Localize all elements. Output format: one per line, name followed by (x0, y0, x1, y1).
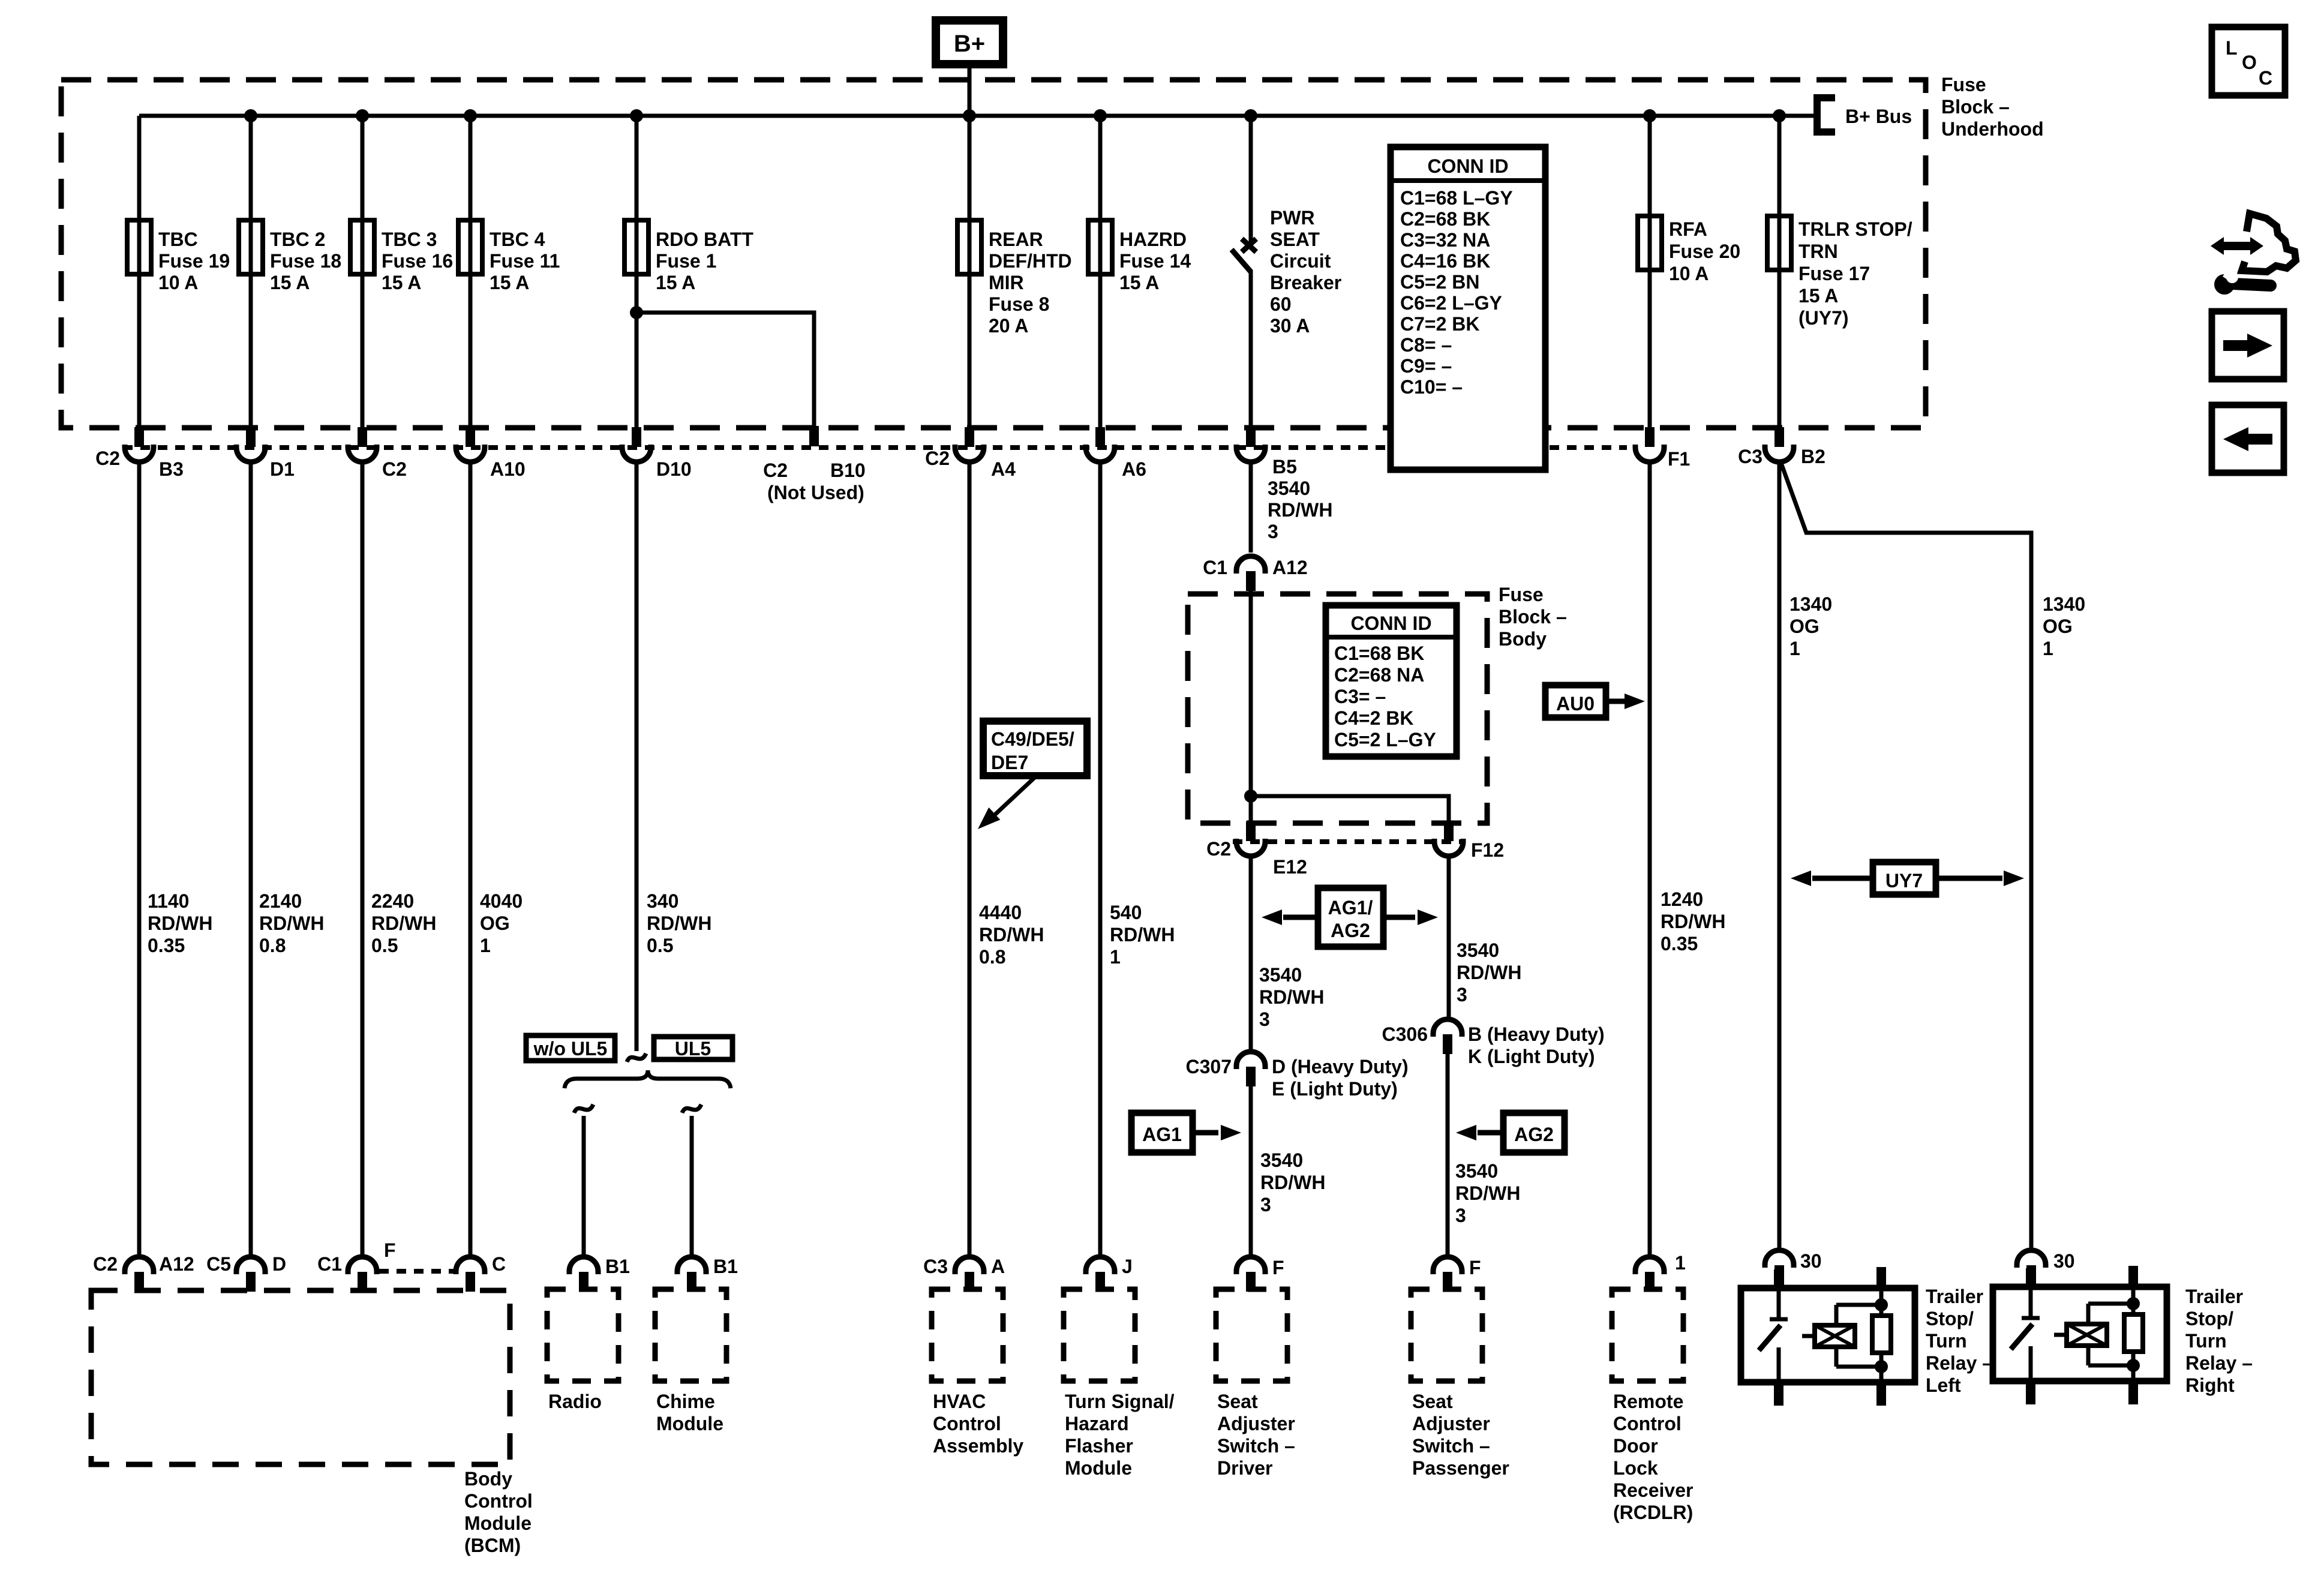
svg-text:w/o UL5: w/o UL5 (533, 1038, 608, 1059)
svg-text:15 A: 15 A (270, 272, 310, 293)
svg-text:RD/WH: RD/WH (1110, 924, 1175, 945)
svg-text:Module: Module (464, 1512, 532, 1534)
svg-text:3: 3 (1457, 984, 1467, 1005)
svg-text:Stop/: Stop/ (1926, 1308, 1974, 1329)
svg-text:Trailer: Trailer (2185, 1286, 2243, 1307)
svg-text:1: 1 (480, 935, 491, 956)
svg-text:UY7: UY7 (1885, 870, 1923, 891)
svg-text:C: C (2259, 67, 2272, 89)
svg-text:C2: C2 (925, 448, 950, 469)
svg-text:15 A: 15 A (1798, 285, 1838, 307)
svg-text:E (Light Duty): E (Light Duty) (1272, 1078, 1398, 1100)
svg-text:SEAT: SEAT (1270, 229, 1320, 250)
svg-text:AU0: AU0 (1556, 693, 1595, 715)
svg-text:B+ Bus: B+ Bus (1845, 106, 1912, 127)
svg-text:C2=68 BK: C2=68 BK (1400, 208, 1490, 230)
svg-text:Fuse: Fuse (1941, 74, 1986, 95)
svg-text:D10: D10 (656, 458, 692, 480)
svg-text:TBC 4: TBC 4 (490, 229, 545, 250)
svg-text:TRN: TRN (1798, 241, 1838, 262)
svg-text:1340: 1340 (2043, 593, 2085, 615)
svg-text:B (Heavy Duty): B (Heavy Duty) (1468, 1023, 1605, 1045)
svg-text:C1: C1 (317, 1253, 342, 1275)
svg-text:Turn Signal/: Turn Signal/ (1065, 1391, 1175, 1412)
svg-text:Fuse 14: Fuse 14 (1119, 250, 1191, 272)
svg-text:UL5: UL5 (675, 1038, 711, 1059)
svg-text:Fuse 11: Fuse 11 (490, 250, 560, 272)
svg-text:C3: C3 (1738, 446, 1762, 467)
svg-text:J: J (1122, 1256, 1133, 1277)
svg-text:L: L (2226, 37, 2238, 59)
svg-text:C49/DE5/: C49/DE5/ (991, 728, 1074, 750)
svg-text:C5=2 BN: C5=2 BN (1400, 271, 1480, 293)
svg-text:C: C (492, 1253, 506, 1275)
svg-text:2240: 2240 (371, 890, 414, 912)
svg-text:Receiver: Receiver (1613, 1479, 1693, 1501)
svg-text:0.35: 0.35 (148, 935, 185, 956)
svg-text:CONN ID: CONN ID (1427, 155, 1508, 177)
svg-text:0.5: 0.5 (371, 935, 398, 956)
svg-text:DE7: DE7 (991, 752, 1028, 773)
svg-text:Passenger: Passenger (1412, 1457, 1509, 1479)
svg-text:C2: C2 (382, 458, 407, 480)
svg-text:(Not Used): (Not Used) (767, 482, 864, 503)
svg-text:1: 1 (1110, 946, 1121, 968)
svg-text:Switch –: Switch – (1217, 1435, 1295, 1457)
svg-text:RFA: RFA (1669, 218, 1707, 240)
svg-text:C307: C307 (1186, 1056, 1232, 1077)
svg-text:C2: C2 (95, 448, 120, 469)
svg-text:15 A: 15 A (1119, 272, 1159, 293)
svg-text:Driver: Driver (1217, 1457, 1273, 1479)
svg-text:TBC 3: TBC 3 (382, 229, 437, 250)
svg-text:B2: B2 (1801, 446, 1825, 467)
svg-text:RD/WH: RD/WH (1260, 1172, 1325, 1193)
svg-text:C8= –: C8= – (1400, 334, 1452, 356)
svg-text:F: F (1272, 1257, 1284, 1278)
svg-text:Body: Body (1499, 628, 1547, 650)
svg-text:1140: 1140 (148, 890, 189, 912)
svg-text:30: 30 (1800, 1250, 1822, 1272)
svg-text:C1=68 L–GY: C1=68 L–GY (1400, 187, 1513, 209)
svg-text:K (Light Duty): K (Light Duty) (1468, 1046, 1595, 1067)
svg-text:Radio: Radio (548, 1391, 602, 1412)
svg-text:F: F (1469, 1257, 1481, 1278)
svg-text:Adjuster: Adjuster (1412, 1413, 1490, 1434)
svg-text:B1: B1 (605, 1256, 630, 1277)
svg-text:A12: A12 (1272, 557, 1308, 578)
svg-text:3540: 3540 (1455, 1160, 1498, 1182)
svg-text:Breaker: Breaker (1270, 272, 1341, 293)
svg-text:D: D (272, 1253, 286, 1275)
svg-text:F: F (384, 1239, 396, 1261)
svg-text:15 A: 15 A (382, 272, 421, 293)
svg-text:OG: OG (480, 912, 510, 934)
svg-text:540: 540 (1110, 902, 1142, 923)
svg-text:1: 1 (1789, 638, 1800, 659)
svg-text:MIR: MIR (989, 272, 1024, 293)
svg-text:C4=16 BK: C4=16 BK (1400, 250, 1490, 272)
svg-text:AG1: AG1 (1142, 1124, 1182, 1145)
svg-text:3: 3 (1259, 1008, 1270, 1030)
svg-text:F1: F1 (1668, 448, 1690, 470)
svg-text:C3: C3 (923, 1256, 948, 1277)
svg-text:Seat: Seat (1412, 1391, 1453, 1412)
svg-text:Circuit: Circuit (1270, 250, 1331, 272)
svg-text:C6=2 L–GY: C6=2 L–GY (1400, 292, 1502, 314)
svg-text:2140: 2140 (259, 890, 302, 912)
svg-text:Hazard: Hazard (1065, 1413, 1129, 1434)
svg-text:0.8: 0.8 (979, 946, 1005, 968)
svg-text:F12: F12 (1471, 839, 1504, 861)
svg-text:AG2: AG2 (1514, 1124, 1554, 1145)
svg-text:Adjuster: Adjuster (1217, 1413, 1295, 1434)
svg-text:Turn: Turn (2185, 1330, 2227, 1352)
svg-text:(UY7): (UY7) (1798, 307, 1849, 329)
svg-text:Body: Body (464, 1468, 512, 1490)
svg-text:A6: A6 (1122, 458, 1146, 480)
svg-text:20 A: 20 A (989, 315, 1028, 337)
svg-text:C2=68 NA: C2=68 NA (1334, 664, 1424, 686)
svg-text:RD/WH: RD/WH (979, 924, 1044, 945)
svg-text:Stop/: Stop/ (2185, 1308, 2233, 1329)
svg-text:Right: Right (2185, 1374, 2235, 1396)
svg-text:Relay –: Relay – (1926, 1352, 1993, 1374)
svg-text:15 A: 15 A (656, 272, 695, 293)
svg-text:C9= –: C9= – (1400, 355, 1452, 377)
svg-text:C306: C306 (1382, 1023, 1428, 1045)
svg-text:RDO BATT: RDO BATT (656, 229, 753, 250)
svg-text:A: A (991, 1256, 1005, 1277)
svg-text:4440: 4440 (979, 902, 1022, 923)
svg-text:1: 1 (1675, 1252, 1686, 1274)
svg-text:AG1/: AG1/ (1328, 897, 1373, 918)
svg-text:Block –: Block – (1941, 96, 2010, 118)
svg-text:E12: E12 (1273, 856, 1307, 878)
svg-text:Fuse 18: Fuse 18 (270, 250, 341, 272)
svg-text:DEF/HTD: DEF/HTD (989, 250, 1072, 272)
svg-text:B5: B5 (1272, 456, 1297, 478)
svg-text:OG: OG (2043, 616, 2073, 637)
svg-text:30 A: 30 A (1270, 315, 1310, 337)
svg-text:TBC 2: TBC 2 (270, 229, 325, 250)
svg-text:3540: 3540 (1457, 939, 1499, 961)
svg-text:B1: B1 (713, 1256, 738, 1277)
svg-text:Fuse 16: Fuse 16 (382, 250, 453, 272)
svg-text:RD/WH: RD/WH (1259, 986, 1324, 1008)
svg-text:TBC: TBC (158, 229, 198, 250)
svg-text:C2: C2 (93, 1253, 118, 1275)
svg-text:AG2: AG2 (1331, 920, 1370, 941)
svg-text:10 A: 10 A (158, 272, 198, 293)
svg-text:C3= –: C3= – (1334, 686, 1386, 707)
svg-text:Lock: Lock (1613, 1457, 1658, 1479)
svg-text:Turn: Turn (1926, 1330, 1967, 1352)
svg-text:Fuse: Fuse (1499, 584, 1544, 605)
svg-text:(BCM): (BCM) (464, 1535, 521, 1556)
svg-text:Relay –: Relay – (2185, 1352, 2253, 1374)
svg-text:CONN ID: CONN ID (1350, 613, 1431, 634)
svg-text:OG: OG (1789, 616, 1819, 637)
svg-text:RD/WH: RD/WH (1455, 1182, 1520, 1204)
svg-text:C5=2 L–GY: C5=2 L–GY (1334, 729, 1436, 751)
svg-text:Trailer: Trailer (1926, 1286, 1983, 1307)
svg-text:30: 30 (2053, 1250, 2075, 1272)
svg-text:Switch –: Switch – (1412, 1435, 1490, 1457)
svg-text:Chime: Chime (656, 1391, 715, 1412)
svg-text:Module: Module (656, 1413, 723, 1434)
svg-text:RD/WH: RD/WH (371, 912, 436, 934)
svg-text:15 A: 15 A (490, 272, 529, 293)
svg-text:3540: 3540 (1260, 1149, 1303, 1171)
svg-text:3: 3 (1268, 521, 1278, 542)
svg-text:Left: Left (1926, 1374, 1961, 1396)
svg-text:A10: A10 (490, 458, 526, 480)
svg-text:RD/WH: RD/WH (259, 912, 324, 934)
svg-text:C3=32 NA: C3=32 NA (1400, 229, 1490, 251)
svg-text:3540: 3540 (1268, 478, 1310, 499)
svg-text:C1: C1 (1203, 557, 1227, 578)
svg-text:Fuse 8: Fuse 8 (989, 293, 1049, 315)
svg-text:(RCDLR): (RCDLR) (1613, 1502, 1693, 1523)
svg-text:TRLR STOP/: TRLR STOP/ (1798, 218, 1912, 240)
svg-text:C2: C2 (1206, 838, 1231, 860)
svg-text:Module: Module (1065, 1457, 1132, 1479)
svg-text:1: 1 (2043, 638, 2053, 659)
svg-text:REAR: REAR (989, 229, 1043, 250)
svg-text:B+: B+ (954, 31, 985, 57)
svg-text:340: 340 (647, 890, 678, 912)
svg-text:Fuse 1: Fuse 1 (656, 250, 716, 272)
svg-text:Underhood: Underhood (1941, 118, 2044, 140)
svg-text:1340: 1340 (1789, 593, 1832, 615)
svg-text:Fuse 20: Fuse 20 (1669, 241, 1740, 262)
svg-text:B3: B3 (159, 458, 184, 480)
svg-text:C7=2 BK: C7=2 BK (1400, 313, 1480, 335)
svg-text:Fuse 17: Fuse 17 (1798, 263, 1870, 284)
svg-text:HAZRD: HAZRD (1119, 229, 1187, 250)
svg-text:3: 3 (1455, 1205, 1466, 1226)
svg-text:D (Heavy Duty): D (Heavy Duty) (1272, 1056, 1409, 1077)
svg-text:0.35: 0.35 (1661, 933, 1698, 954)
svg-text:Control: Control (1613, 1413, 1682, 1434)
svg-text:RD/WH: RD/WH (647, 912, 711, 934)
svg-text:PWR: PWR (1270, 207, 1315, 229)
svg-text:0.8: 0.8 (259, 935, 286, 956)
svg-text:A4: A4 (991, 458, 1016, 480)
svg-text:C1=68 BK: C1=68 BK (1334, 643, 1424, 664)
svg-text:D1: D1 (270, 458, 295, 480)
svg-text:Control: Control (464, 1490, 533, 1512)
svg-text:Control: Control (933, 1413, 1001, 1434)
svg-text:HVAC: HVAC (933, 1391, 986, 1412)
svg-text:Block –: Block – (1499, 606, 1567, 628)
svg-text:0.5: 0.5 (647, 935, 673, 956)
svg-text:Assembly: Assembly (933, 1435, 1023, 1457)
svg-text:3540: 3540 (1259, 964, 1302, 986)
svg-text:Door: Door (1613, 1435, 1658, 1457)
svg-text:3: 3 (1260, 1194, 1271, 1215)
svg-text:10 A: 10 A (1669, 263, 1709, 284)
svg-text:Remote: Remote (1613, 1391, 1683, 1412)
svg-text:O: O (2242, 52, 2257, 73)
svg-text:RD/WH: RD/WH (148, 912, 212, 934)
svg-text:60: 60 (1270, 293, 1292, 315)
svg-text:C4=2 BK: C4=2 BK (1334, 707, 1414, 729)
svg-text:RD/WH: RD/WH (1457, 962, 1521, 983)
svg-text:A12: A12 (159, 1253, 194, 1275)
svg-text:C2: C2 (763, 460, 788, 481)
svg-text:C5: C5 (206, 1253, 231, 1275)
svg-text:4040: 4040 (480, 890, 523, 912)
svg-text:RD/WH: RD/WH (1268, 499, 1332, 521)
svg-text:Flasher: Flasher (1065, 1435, 1133, 1457)
svg-text:Seat: Seat (1217, 1391, 1258, 1412)
svg-text:Fuse 19: Fuse 19 (158, 250, 230, 272)
svg-text:C10= –: C10= – (1400, 376, 1463, 398)
svg-text:RD/WH: RD/WH (1661, 911, 1725, 932)
svg-text:B10: B10 (830, 460, 866, 481)
svg-text:1240: 1240 (1661, 888, 1703, 910)
